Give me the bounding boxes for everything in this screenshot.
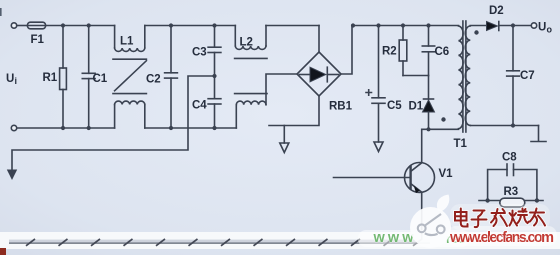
transistor V1 — [334, 129, 435, 240]
capacitor C1 — [82, 26, 95, 129]
svg-text:R2: R2 — [382, 46, 397, 58]
svg-text:C7: C7 — [520, 70, 535, 82]
hatched bar bottom strip — [9, 239, 430, 246]
wire top rail to bridge — [266, 25, 319, 27]
capacitor C8 — [488, 164, 537, 201]
watermark haze — [447, 204, 557, 246]
wire bottom rail mid — [145, 127, 237, 129]
left edge artifact top — [0, 8, 2, 16]
node C5 top — [376, 23, 380, 27]
wire L2 bottom to bridge left — [266, 74, 297, 105]
svg-text:C2: C2 — [146, 74, 161, 86]
node C3 top — [212, 23, 216, 27]
wire top rail right — [352, 25, 459, 27]
node C3 C4 midpoint — [212, 74, 216, 78]
wire bridge bottom to ground — [269, 96, 319, 126]
label C6 — [435, 46, 450, 58]
svg-text:C8: C8 — [502, 152, 517, 164]
diode D1 — [423, 76, 435, 130]
node C7 top — [511, 23, 515, 27]
svg-text:T1: T1 — [454, 138, 468, 150]
svg-text:R1: R1 — [43, 72, 58, 84]
node C1 bottom — [87, 126, 91, 130]
label T1 — [454, 138, 468, 150]
left edge artifact bottom red — [0, 248, 6, 255]
node R3 left — [485, 198, 489, 202]
wire secondary bottom — [470, 125, 538, 127]
capacitor C6 — [422, 26, 434, 76]
inductor L1 common-mode choke — [113, 26, 146, 129]
label L2 — [240, 37, 253, 49]
node C2 top — [169, 23, 173, 27]
capacitor C3 — [208, 26, 221, 77]
label C4 — [192, 100, 207, 112]
svg-text:RB1: RB1 — [329, 101, 353, 113]
label R1 — [43, 72, 58, 84]
capacitor C4 — [208, 76, 221, 128]
wire bridge right to top rail — [341, 26, 352, 75]
capacitor C2 — [165, 26, 178, 129]
label R2 — [382, 46, 397, 58]
watermark logo elecfans — [410, 195, 451, 249]
node C7 bottom — [511, 123, 515, 127]
wire ground branch — [283, 126, 285, 144]
label C7 — [520, 70, 535, 82]
wire bottom rail left — [17, 127, 115, 129]
node R2 top — [401, 23, 405, 27]
resistor R2 — [399, 26, 407, 76]
node C6 top — [426, 23, 430, 27]
label RB1 — [329, 101, 353, 113]
watermark url red — [449, 230, 554, 246]
transformer T1 — [459, 21, 471, 132]
svg-text:C3: C3 — [192, 47, 207, 59]
label D1 — [409, 101, 424, 113]
watermark green www — [373, 230, 466, 246]
node C2 bottom — [169, 126, 173, 130]
svg-text:www.elecfans.com: www.elecfans.com — [449, 230, 554, 246]
svg-text:U: U — [538, 22, 546, 34]
label F1 — [31, 34, 45, 46]
svg-text:L1: L1 — [120, 36, 134, 48]
ground secondary — [531, 126, 546, 142]
terminal input top — [11, 23, 16, 28]
label V1 — [439, 168, 454, 180]
wire top rail left — [46, 25, 115, 27]
wire top rail mid — [145, 25, 236, 27]
wire R2 C6 node — [403, 75, 429, 77]
svg-text:C1: C1 — [93, 73, 108, 85]
capacitor C7 — [507, 26, 520, 126]
inductor L2 common-mode choke — [235, 26, 267, 129]
resistor R1 — [60, 26, 67, 129]
earth wire from C3 C4 midpoint — [12, 76, 215, 170]
svg-text:F1: F1 — [31, 34, 45, 46]
capacitor C5 polarized — [366, 26, 385, 143]
node R1 bottom — [61, 126, 65, 130]
node R1 top — [61, 23, 65, 27]
svg-text:L2: L2 — [240, 37, 253, 49]
ground arrow open — [280, 143, 289, 153]
svg-text:D1: D1 — [409, 101, 424, 113]
watermark green www haze — [358, 230, 470, 247]
label Ui — [6, 73, 17, 86]
diode D2 — [487, 22, 532, 31]
node R3 right — [535, 198, 539, 202]
wire — [17, 25, 28, 27]
svg-text:V1: V1 — [439, 168, 454, 180]
resistor R3 — [500, 198, 525, 207]
node bridge out — [351, 23, 355, 27]
node polarity dot primary — [441, 117, 445, 121]
bridge rectifier RB1 — [297, 26, 341, 97]
svg-text:U: U — [6, 73, 14, 85]
label C1 — [93, 73, 108, 85]
svg-text:R3: R3 — [504, 186, 519, 198]
svg-text:C6: C6 — [435, 46, 450, 58]
fuse F1 — [27, 22, 45, 29]
label C3 — [192, 47, 207, 59]
terminal input bottom — [11, 125, 16, 130]
wire primary bottom — [422, 128, 459, 130]
label C5 — [387, 100, 402, 112]
earth arrow filled — [7, 170, 17, 181]
label L1 — [120, 36, 134, 48]
ground arrow open C5 — [374, 142, 383, 152]
terminal output Uo — [531, 23, 536, 28]
svg-text:www: www — [373, 230, 415, 246]
watermark text dianzifashaoyou — [455, 209, 545, 228]
svg-text:C5: C5 — [387, 100, 402, 112]
label C2 — [146, 74, 161, 86]
svg-text:o: o — [547, 25, 553, 35]
wire secondary top — [470, 25, 486, 27]
label D2 — [489, 5, 504, 17]
node C4 bottom — [212, 126, 216, 130]
label C8 — [502, 152, 517, 164]
wire C8 R3 bottom — [479, 200, 543, 202]
label Uo — [538, 22, 553, 35]
label R3 — [504, 186, 519, 198]
node polarity dot secondary — [474, 30, 478, 34]
svg-text:D2: D2 — [489, 5, 504, 17]
svg-text:i: i — [15, 76, 18, 86]
node C1 top — [87, 23, 91, 27]
svg-text:C4: C4 — [192, 100, 207, 112]
bottom white band — [0, 232, 560, 249]
node D1 anode — [426, 127, 430, 131]
